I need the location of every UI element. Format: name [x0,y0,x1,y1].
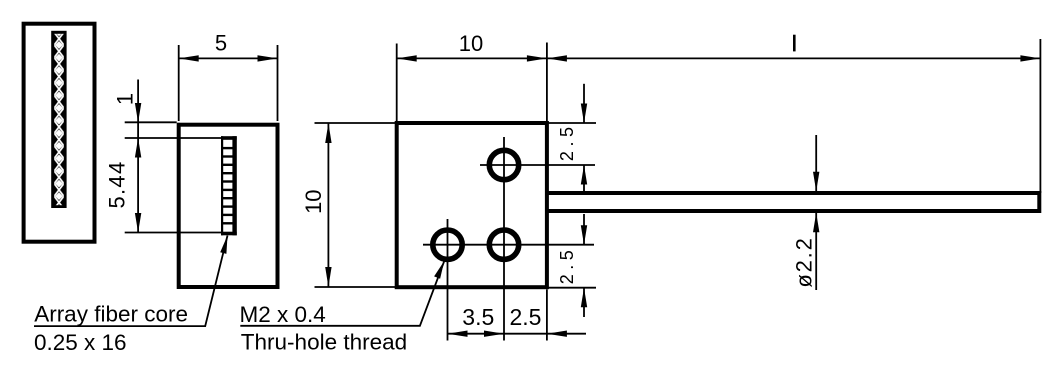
crosshair bottom row horizontal [423,244,594,246]
hole bottom-right [489,230,518,259]
hole top [489,150,518,179]
arrow 2.5 top lower [581,165,587,185]
svg-text:1: 1 [113,93,138,105]
leader array fiber core [34,236,228,327]
crosshair top hole horizontal / ext right 2.5 [480,164,595,166]
dim line 2.5 bottom [583,214,585,245]
arrow leader array fiber core [220,236,227,254]
dim line l [547,57,1041,59]
svg-text:M2 x 0.4: M2 x 0.4 [240,302,326,327]
svg-text:Thru-hole thread: Thru-hole thread [241,329,407,354]
svg-text:10: 10 [459,31,483,56]
arrow 5 left [179,55,199,61]
ext line for l dim right [1039,39,1041,193]
view 1: fiber array slot (crosshatched) [51,31,66,208]
ext lines for 5 dim [178,45,180,121]
arrow v10 bottom [325,267,331,287]
arrow v10 top [325,123,331,143]
svg-text:10: 10 [301,189,326,213]
dim line 1 + 5.44 [137,80,139,233]
svg-text:5: 5 [215,31,227,56]
arrow 2.5 bottom-dim right [547,331,567,337]
view 1: side view outer body [24,24,95,242]
arrow dia2.2 bottom [813,213,819,233]
arrowheads [135,55,1041,337]
fiber cable [547,193,1039,211]
leader M2 thread [240,261,444,326]
dim line 3.5 / 2.5 bottom [448,333,587,335]
arrow 5.44 bottom [135,213,141,233]
arrow 3.5 left [448,331,468,337]
crosshair bottom-left hole vertical [447,219,449,341]
dim line 5 [179,57,278,59]
dim line vertical 10 [327,123,329,287]
dim line 2.5 top [583,84,585,123]
arrow dia2.2 top [813,172,819,192]
arrow 5.44 top [135,138,141,158]
svg-text:0.25 x 16: 0.25 x 16 [34,330,127,355]
svg-text:Array fiber core: Array fiber core [34,302,188,327]
svg-text:2.5: 2.5 [557,246,577,285]
arrow l right [1020,55,1040,61]
arrow 3.5 right [484,331,504,337]
ext line right bottom edge [547,287,596,289]
arrow leader M2 [434,261,444,279]
view 2: front view outer body [179,125,278,287]
hole bottom-left [433,230,462,259]
ext below square right edge [546,289,548,340]
arrow 2.5 bottom upper [581,225,587,245]
crosshair top+bottom-right holes vertical [503,137,505,341]
svg-text:3.5: 3.5 [462,304,494,330]
arrow 2.5 top upper [581,104,587,124]
arrow 2.5 bottom lower [581,288,587,308]
arrow l left [547,55,567,61]
ext lines for top 10 dim [396,44,398,122]
view 3: head block square [397,123,547,287]
svg-text:2.5: 2.5 [510,304,542,330]
arrow 10 left [397,55,417,61]
arrow 10 right [527,55,547,61]
ext lines vertical 10 dim [315,122,396,124]
arrow 1 top [135,103,141,123]
dim line dia 2.2 [815,135,817,191]
ext lines 1 / 5.44 dims [125,121,177,123]
ext lines right 2.5 top [547,122,596,124]
view 2: fiber array ladder [221,136,237,235]
dim line 10 top [397,57,547,59]
dim text l (drawn as bar) [793,35,796,52]
arrow 5 right [258,55,278,61]
svg-text:ø2.2: ø2.2 [792,236,817,287]
svg-text:5.44: 5.44 [105,160,130,208]
svg-text:2.5: 2.5 [557,123,577,162]
